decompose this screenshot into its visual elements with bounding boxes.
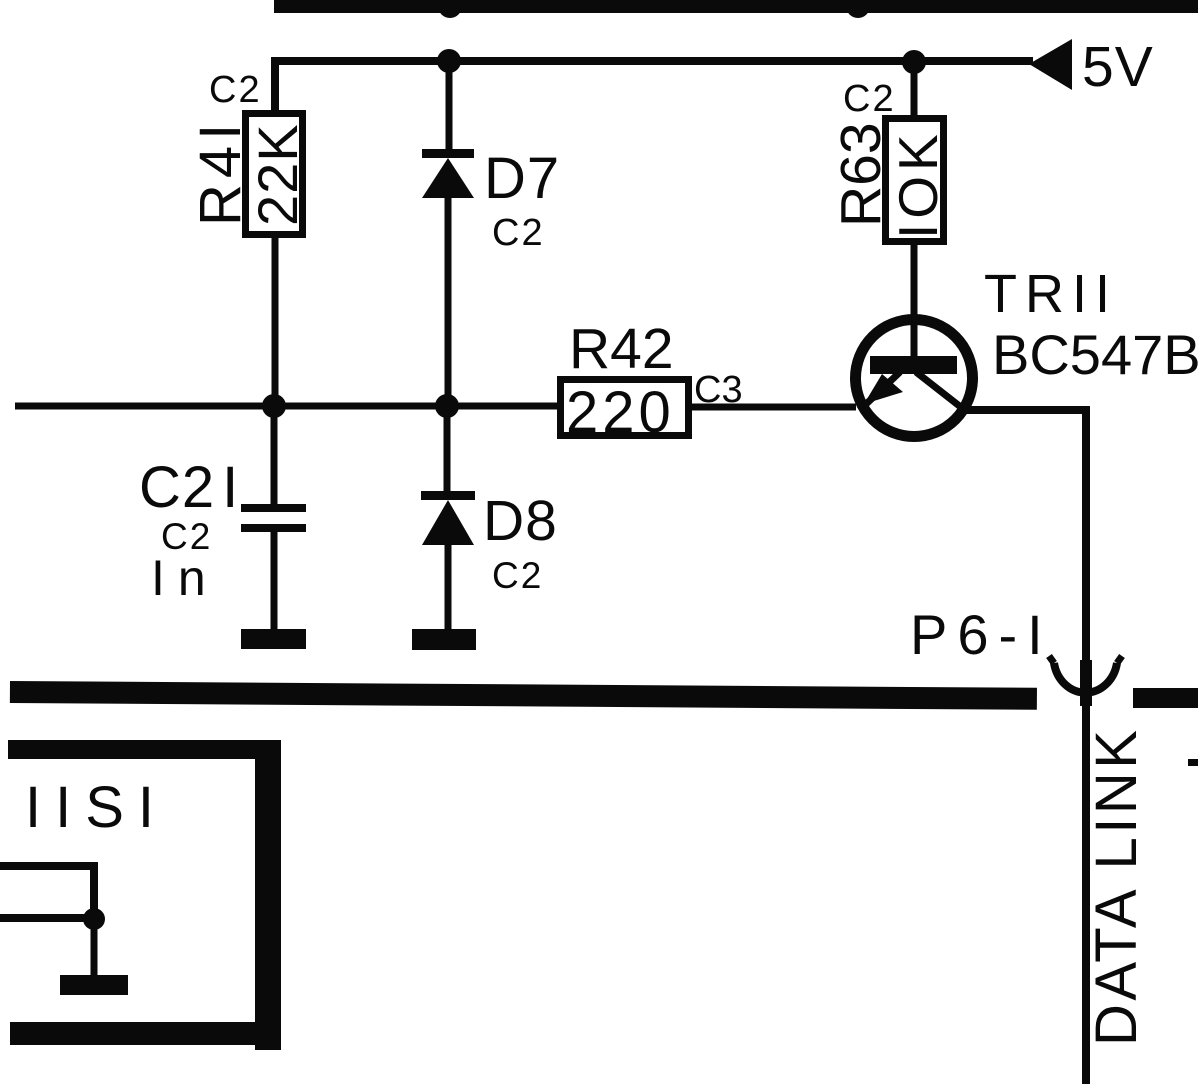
svg-text:C2: C2 <box>492 212 545 254</box>
wire D7 top <box>446 61 453 152</box>
diode D8 <box>421 491 475 545</box>
svg-text:IISI: IISI <box>25 775 168 840</box>
junction dot stub <box>83 908 105 930</box>
transistor TR11 circle <box>856 320 973 437</box>
ground C21 <box>241 629 306 649</box>
svg-text:In: In <box>151 550 219 606</box>
junction dot top bus left <box>438 0 462 18</box>
resistor R41 <box>246 114 303 235</box>
diode D7 <box>422 149 474 198</box>
wire R41 to node <box>272 234 279 404</box>
svg-text:C2: C2 <box>843 78 896 120</box>
capacitor C21 <box>241 504 306 532</box>
junction dot 5V rail / D7 <box>437 49 461 73</box>
svg-text:5V: 5V <box>1082 35 1154 99</box>
wire top bus <box>274 0 1198 13</box>
wire main node left <box>15 403 557 410</box>
wire stub lower <box>0 914 94 922</box>
junction dot node / C21 <box>262 394 286 418</box>
junction dot top bus right <box>846 0 870 18</box>
svg-text:R42: R42 <box>569 317 674 381</box>
svg-text:D8: D8 <box>483 489 558 553</box>
junction dot node / D8 <box>435 394 459 418</box>
tick right edge <box>1188 759 1198 766</box>
wire emitter to data link corner <box>958 410 1086 1084</box>
wire stub to ground <box>91 919 98 977</box>
svg-text:TRII: TRII <box>984 264 1118 324</box>
wire R63 top <box>911 62 918 118</box>
svg-text:220: 220 <box>566 380 675 445</box>
svg-text:P6-I: P6-I <box>910 603 1053 666</box>
svg-text:C2: C2 <box>209 69 262 111</box>
junction dot 5V rail / R63 <box>902 50 926 74</box>
wire D7 to node <box>445 198 452 404</box>
svg-text:D7: D7 <box>484 146 560 211</box>
svg-text:DATA LINK: DATA LINK <box>1084 727 1149 1046</box>
wire R42 to transistor base <box>688 404 856 411</box>
svg-text:R4I: R4I <box>188 118 253 226</box>
resistor R63 <box>886 119 944 242</box>
connector hop P6-1 <box>1049 656 1122 693</box>
svg-text:22K: 22K <box>246 123 309 226</box>
transistor emitter with arrow <box>864 372 900 406</box>
bus bar main <box>10 681 1037 710</box>
svg-text:C2: C2 <box>492 555 543 596</box>
svg-text:IOK: IOK <box>887 129 949 239</box>
IC box bottom edge <box>10 1022 281 1045</box>
wire 5V rail <box>275 61 1033 112</box>
wire stub upper <box>0 866 94 920</box>
transistor collector diagonal <box>916 372 962 408</box>
transistor base bar <box>870 356 957 374</box>
wire R63 to transistor <box>911 242 918 360</box>
ground D8 <box>412 629 476 650</box>
ground (IC box) <box>60 975 128 995</box>
bus bar right segment <box>1133 688 1198 708</box>
resistor R42 <box>561 380 689 436</box>
svg-text:C2I: C2I <box>139 455 239 520</box>
svg-text:BC547B: BC547B <box>992 323 1198 386</box>
power symbol 5V arrow <box>1029 39 1072 90</box>
IC box right edge <box>255 740 281 1050</box>
svg-text:R63: R63 <box>829 122 893 227</box>
IC box top edge <box>8 740 281 759</box>
